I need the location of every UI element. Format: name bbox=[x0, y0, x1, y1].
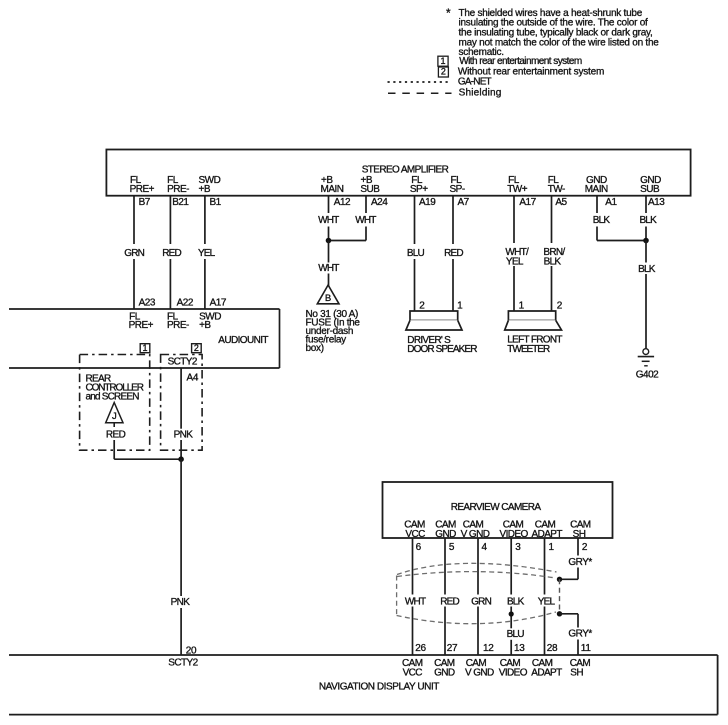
svg-text:27: 27 bbox=[447, 643, 458, 654]
svg-text:BLK: BLK bbox=[639, 215, 657, 226]
svg-text:B1: B1 bbox=[210, 197, 222, 208]
svg-text:BLU: BLU bbox=[407, 248, 425, 259]
svg-text:A7: A7 bbox=[458, 197, 470, 208]
svg-text:PNK: PNK bbox=[174, 430, 194, 441]
svg-text:2: 2 bbox=[441, 67, 446, 77]
wire RED from connector J down and right to junction bbox=[113, 440, 115, 459]
svg-text:WHT: WHT bbox=[405, 596, 426, 607]
svg-text:RED: RED bbox=[444, 248, 463, 259]
svg-text:WHT: WHT bbox=[318, 215, 339, 226]
wire B1 YEL from amplifier to audio unit A17 bbox=[204, 196, 206, 245]
svg-text:1: 1 bbox=[142, 343, 147, 353]
svg-text:and SCREEN: and SCREEN bbox=[86, 392, 140, 403]
svg-text:BLK: BLK bbox=[593, 215, 611, 226]
wire camera pin 3 BLK-BLU to nav pin 13 bbox=[510, 538, 512, 595]
svg-text:PRE+: PRE+ bbox=[130, 184, 155, 195]
svg-text:V GND: V GND bbox=[461, 529, 490, 540]
svg-text:VIDEO: VIDEO bbox=[499, 668, 528, 679]
svg-text:SP+: SP+ bbox=[410, 184, 428, 195]
wire shield drain to junction bbox=[560, 578, 579, 580]
svg-text:G402: G402 bbox=[636, 370, 659, 381]
navigation display unit box bbox=[9, 654, 718, 656]
svg-text:A4: A4 bbox=[187, 373, 199, 384]
legend key 2 box bbox=[438, 67, 448, 77]
svg-text:12: 12 bbox=[483, 643, 494, 654]
svg-text:13: 13 bbox=[514, 643, 525, 654]
svg-text:VCC: VCC bbox=[403, 668, 423, 679]
wire camera pin 5 RED to nav pin 27 bbox=[444, 538, 446, 595]
wire PNK from audio unit A4 bbox=[180, 368, 182, 429]
svg-text:YEL: YEL bbox=[538, 596, 556, 607]
junction of RED and PNK wires bbox=[178, 456, 184, 462]
svg-text:STEREO AMPLIFIER: STEREO AMPLIFIER bbox=[362, 165, 449, 176]
wire A17 FL TW+ WHT/YEL to tweeter bbox=[513, 196, 515, 244]
connector J triangle symbol bbox=[106, 403, 123, 423]
svg-text:WHT: WHT bbox=[318, 263, 339, 274]
wire A7 FL SP- RED to driver's door speaker bbox=[452, 196, 454, 245]
svg-text:B21: B21 bbox=[172, 197, 189, 208]
wire shield drain lower to nav pin 11 bbox=[560, 613, 579, 615]
svg-text:GRY*: GRY* bbox=[568, 628, 592, 639]
svg-text:box): box) bbox=[306, 343, 324, 354]
svg-text:2: 2 bbox=[419, 300, 425, 311]
svg-text:1: 1 bbox=[457, 300, 463, 311]
svg-text:ADAPT: ADAPT bbox=[532, 529, 563, 540]
svg-text:A12: A12 bbox=[334, 197, 351, 208]
svg-text:MAIN: MAIN bbox=[321, 184, 344, 195]
svg-text:+B: +B bbox=[199, 320, 211, 331]
svg-text:PRE-: PRE- bbox=[167, 320, 189, 331]
svg-text:BLK: BLK bbox=[638, 264, 656, 275]
svg-text:PRE+: PRE+ bbox=[129, 320, 154, 331]
svg-text:DOOR SPEAKER: DOOR SPEAKER bbox=[407, 344, 477, 355]
svg-text:28: 28 bbox=[547, 643, 558, 654]
svg-text:A1: A1 bbox=[605, 197, 617, 208]
svg-text:GRY*: GRY* bbox=[568, 557, 592, 568]
svg-text:PRE-: PRE- bbox=[167, 184, 189, 195]
svg-text:BLK: BLK bbox=[507, 596, 525, 607]
svg-text:MAIN: MAIN bbox=[585, 184, 608, 195]
rearview camera unit box bbox=[383, 482, 613, 538]
wire A5 FL TW- BRN/BLK to tweeter bbox=[551, 196, 553, 244]
wire A19 FL SP+ BLU to driver's door speaker bbox=[414, 196, 416, 245]
ground G402 symbol bbox=[643, 349, 649, 355]
wire camera pin 6 WHT to nav pin 26 bbox=[412, 538, 414, 595]
svg-text:V GND: V GND bbox=[465, 668, 494, 679]
svg-text:SCTY2: SCTY2 bbox=[168, 356, 198, 367]
svg-text:1: 1 bbox=[549, 542, 555, 553]
svg-text:WHT: WHT bbox=[355, 215, 376, 226]
svg-text:BLK: BLK bbox=[544, 257, 562, 268]
wire A24 +B SUB WHT bbox=[365, 196, 367, 214]
svg-text:BLU: BLU bbox=[507, 629, 525, 640]
svg-text:RED: RED bbox=[106, 430, 126, 441]
svg-text:With rear entertainment system: With rear entertainment system bbox=[459, 56, 582, 67]
dashed box 2 without rear entertainment bbox=[161, 355, 203, 451]
svg-text:B7: B7 bbox=[139, 197, 151, 208]
wire A12 +B MAIN WHT bbox=[328, 196, 330, 214]
svg-text:11: 11 bbox=[581, 643, 592, 654]
svg-text:RED: RED bbox=[440, 596, 459, 607]
wire A13 GND SUB BLK bbox=[645, 196, 647, 214]
legend key 1 box bbox=[438, 56, 448, 66]
shield dashed connection bbox=[559, 579, 561, 614]
svg-text:TWEETER: TWEETER bbox=[507, 344, 550, 355]
wire camera pin 4 GRN to nav pin 12 bbox=[477, 538, 479, 595]
svg-text:VCC: VCC bbox=[405, 529, 425, 540]
svg-text:A13: A13 bbox=[648, 197, 665, 208]
wire B21 RED from amplifier to audio unit A22 bbox=[169, 196, 171, 245]
svg-text:ADAPT: ADAPT bbox=[531, 668, 562, 679]
svg-text:TW-: TW- bbox=[548, 184, 565, 195]
svg-text:YEL: YEL bbox=[506, 257, 524, 268]
driver's door speaker symbol bbox=[410, 311, 458, 320]
svg-text:4: 4 bbox=[482, 542, 488, 553]
wire camera pin 2 shield GRY upper bbox=[577, 538, 579, 556]
svg-text:*: * bbox=[446, 6, 451, 20]
svg-text:2: 2 bbox=[582, 542, 588, 553]
svg-text:SUB: SUB bbox=[360, 184, 380, 195]
wire B7 GRN from amplifier to audio unit A23 bbox=[133, 196, 135, 245]
legend shielding dashed line sample bbox=[388, 92, 452, 94]
audio unit box bbox=[9, 308, 280, 310]
svg-text:6: 6 bbox=[416, 542, 422, 553]
key 2 marker box bbox=[192, 344, 202, 353]
legend GA-NET dotted line sample bbox=[388, 81, 451, 83]
wire WHT from junction to fuse B bbox=[328, 241, 330, 263]
svg-text:3: 3 bbox=[515, 542, 521, 553]
svg-text:AUDIOUNIT: AUDIOUNIT bbox=[218, 335, 268, 346]
stereo amplifier unit box bbox=[106, 150, 690, 196]
svg-text:A5: A5 bbox=[555, 197, 567, 208]
svg-text:TW+: TW+ bbox=[507, 184, 528, 195]
svg-text:PNK: PNK bbox=[171, 597, 191, 608]
svg-text:2: 2 bbox=[194, 343, 199, 353]
splice BLK to BLU bbox=[509, 611, 514, 616]
svg-text:SH: SH bbox=[570, 668, 583, 679]
svg-text:1: 1 bbox=[519, 300, 525, 311]
svg-text:VIDEO: VIDEO bbox=[500, 529, 529, 540]
wire A1 GND MAIN BLK bbox=[596, 196, 598, 214]
svg-text:GND: GND bbox=[434, 668, 455, 679]
svg-text:SUB: SUB bbox=[640, 184, 660, 195]
svg-text:GRN: GRN bbox=[471, 596, 491, 607]
svg-text:NAVIGATION DISPLAY UNIT: NAVIGATION DISPLAY UNIT bbox=[319, 681, 439, 692]
svg-text:SH: SH bbox=[573, 529, 586, 540]
svg-text:A23: A23 bbox=[139, 298, 156, 309]
svg-text:+B: +B bbox=[199, 184, 211, 195]
svg-text:A17: A17 bbox=[210, 298, 227, 309]
svg-text:2: 2 bbox=[557, 300, 563, 311]
svg-text:B: B bbox=[325, 293, 331, 304]
svg-text:Shielding: Shielding bbox=[459, 88, 502, 99]
fuse B No 31 30A symbol bbox=[317, 285, 339, 304]
svg-text:REARVIEW CAMERA: REARVIEW CAMERA bbox=[451, 502, 542, 513]
dashed box 1 rear controller and screen bbox=[80, 355, 150, 451]
wire BLK from junction to ground G402 bbox=[645, 241, 647, 263]
key 1 marker box bbox=[140, 344, 150, 353]
svg-text:A24: A24 bbox=[371, 197, 388, 208]
svg-text:5: 5 bbox=[449, 542, 455, 553]
svg-text:SP-: SP- bbox=[450, 184, 465, 195]
svg-text:GRN: GRN bbox=[124, 248, 144, 259]
wire junction of +B MAIN and +B SUB bbox=[329, 240, 367, 242]
wire junction of GND MAIN and GND SUB bbox=[597, 240, 646, 242]
svg-text:26: 26 bbox=[415, 643, 426, 654]
svg-text:1: 1 bbox=[440, 56, 445, 66]
wire PNK down to navigation display unit pin 20 bbox=[180, 459, 182, 596]
svg-text:A22: A22 bbox=[177, 298, 194, 309]
svg-text:RED: RED bbox=[162, 248, 181, 259]
svg-text:SCTY2: SCTY2 bbox=[168, 658, 198, 669]
svg-text:J: J bbox=[112, 411, 117, 422]
wire camera pin 1 YEL to nav pin 28 bbox=[544, 538, 546, 595]
shielding outline around camera wires bbox=[397, 563, 557, 623]
svg-text:A17: A17 bbox=[519, 197, 536, 208]
svg-text:A19: A19 bbox=[419, 197, 436, 208]
svg-text:YEL: YEL bbox=[198, 248, 216, 259]
svg-text:GA-NET: GA-NET bbox=[458, 77, 492, 88]
left front tweeter symbol bbox=[508, 311, 555, 320]
